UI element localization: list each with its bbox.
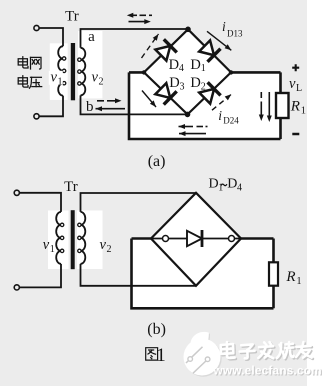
svg-text:v: v: [100, 237, 107, 253]
svg-text:D: D: [190, 57, 200, 73]
svg-text:v: v: [43, 237, 50, 253]
svg-text:1: 1: [301, 106, 306, 117]
svg-text:L: L: [296, 83, 302, 94]
svg-text:i: i: [218, 108, 222, 123]
svg-text:2: 2: [107, 244, 112, 255]
svg-text:1: 1: [296, 276, 301, 287]
svg-text:Tr: Tr: [64, 179, 78, 195]
svg-text:www.elecfans.com: www.elecfans.com: [213, 363, 322, 377]
svg-text:1: 1: [58, 77, 63, 88]
svg-text:b: b: [86, 99, 94, 115]
svg-text:a: a: [88, 29, 95, 45]
svg-text:v: v: [92, 70, 99, 86]
svg-text:v: v: [51, 70, 58, 86]
svg-text:(b): (b): [147, 321, 166, 338]
svg-text:Tr: Tr: [65, 9, 79, 25]
svg-text:R: R: [290, 98, 300, 114]
svg-text:D13: D13: [227, 28, 243, 38]
svg-text:D: D: [227, 177, 237, 192]
svg-text:1: 1: [201, 63, 206, 74]
svg-text:2: 2: [99, 77, 104, 88]
svg-text:4: 4: [237, 183, 242, 194]
svg-text:(a): (a): [148, 153, 166, 170]
svg-text:v: v: [289, 76, 296, 92]
svg-text:3: 3: [180, 81, 185, 92]
svg-text:D24: D24: [223, 116, 239, 126]
svg-text:D: D: [169, 57, 179, 73]
svg-text:R: R: [285, 269, 295, 285]
svg-text:i: i: [222, 19, 226, 34]
svg-text:D: D: [190, 75, 200, 91]
svg-text:1: 1: [50, 244, 55, 255]
svg-text:D: D: [209, 177, 219, 192]
svg-text:4: 4: [179, 63, 184, 74]
svg-text:2: 2: [201, 81, 206, 92]
svg-text:D: D: [169, 75, 179, 91]
